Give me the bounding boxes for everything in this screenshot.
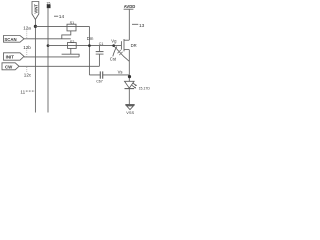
svg-text:CW: CW bbox=[5, 64, 13, 69]
svg-text:S2: S2 bbox=[70, 40, 75, 44]
svg-text:VSS: VSS bbox=[126, 110, 134, 115]
label 13 bbox=[132, 23, 138, 25]
wire SCAN bbox=[24, 38, 71, 40]
tag CW bbox=[2, 63, 19, 70]
tag INIT bbox=[4, 53, 25, 60]
wire Vs bbox=[89, 74, 129, 76]
svg-text:12a: 12a bbox=[23, 26, 31, 31]
svg-text:14: 14 bbox=[59, 14, 65, 20]
svg-text:INIT: INIT bbox=[6, 55, 15, 60]
node dot Vs bbox=[128, 75, 131, 78]
wire rail below transistor bbox=[128, 50, 130, 82]
svg-text:VINT: VINT bbox=[34, 4, 39, 14]
OLED emission arrows bbox=[133, 83, 137, 86]
node dot Dm bbox=[88, 44, 91, 47]
svg-text:Vs: Vs bbox=[118, 69, 123, 74]
capacitor Cst diagonal bbox=[114, 46, 130, 62]
VSS terminal bbox=[125, 104, 134, 106]
wire INIT gate jog bbox=[62, 48, 80, 57]
svg-text:12c: 12c bbox=[24, 72, 32, 77]
OLED diode bbox=[125, 81, 135, 88]
svg-text:12b: 12b bbox=[23, 45, 31, 50]
svg-text:Dm: Dm bbox=[87, 36, 94, 41]
svg-text:S1: S1 bbox=[70, 21, 75, 25]
wire CW bbox=[19, 65, 99, 67]
svg-text:DR: DR bbox=[131, 43, 137, 48]
wire data line 14 bbox=[47, 8, 49, 113]
svg-text:Vg: Vg bbox=[111, 38, 117, 43]
node dot Vg bbox=[112, 44, 115, 47]
wire INIT bbox=[24, 56, 79, 58]
transistor box S1 bbox=[67, 24, 76, 31]
signal tag VINT (vertical, points down) bbox=[32, 2, 39, 20]
wire VINT vertical bbox=[34, 20, 36, 113]
wire select line bbox=[48, 45, 121, 47]
transistor DR bbox=[120, 41, 122, 49]
svg-text:SCAN: SCAN bbox=[4, 37, 16, 42]
label 14 bbox=[54, 15, 58, 17]
node dot 12a bbox=[34, 25, 37, 28]
wire SCAN gate jog bbox=[62, 31, 71, 39]
wire 12a vertical drop bbox=[88, 26, 90, 75]
tag SCAN bbox=[4, 36, 25, 43]
svg-text:13: 13 bbox=[139, 23, 145, 29]
capacitor C67 plates bbox=[99, 71, 101, 78]
wire AVDD rail bbox=[128, 10, 130, 40]
transistor box S2 bbox=[68, 43, 77, 49]
svg-text:C67: C67 bbox=[96, 79, 103, 83]
svg-text:15,17D: 15,17D bbox=[139, 86, 151, 90]
svg-text:11: 11 bbox=[20, 90, 25, 95]
node dot on data line bbox=[47, 44, 50, 47]
svg-text:Cst: Cst bbox=[110, 56, 117, 61]
svg-text:AVDD: AVDD bbox=[124, 4, 136, 9]
svg-text:C1: C1 bbox=[99, 42, 104, 46]
capacitor C1 branch bbox=[98, 46, 100, 52]
wire 12a horizontal bbox=[35, 25, 89, 27]
